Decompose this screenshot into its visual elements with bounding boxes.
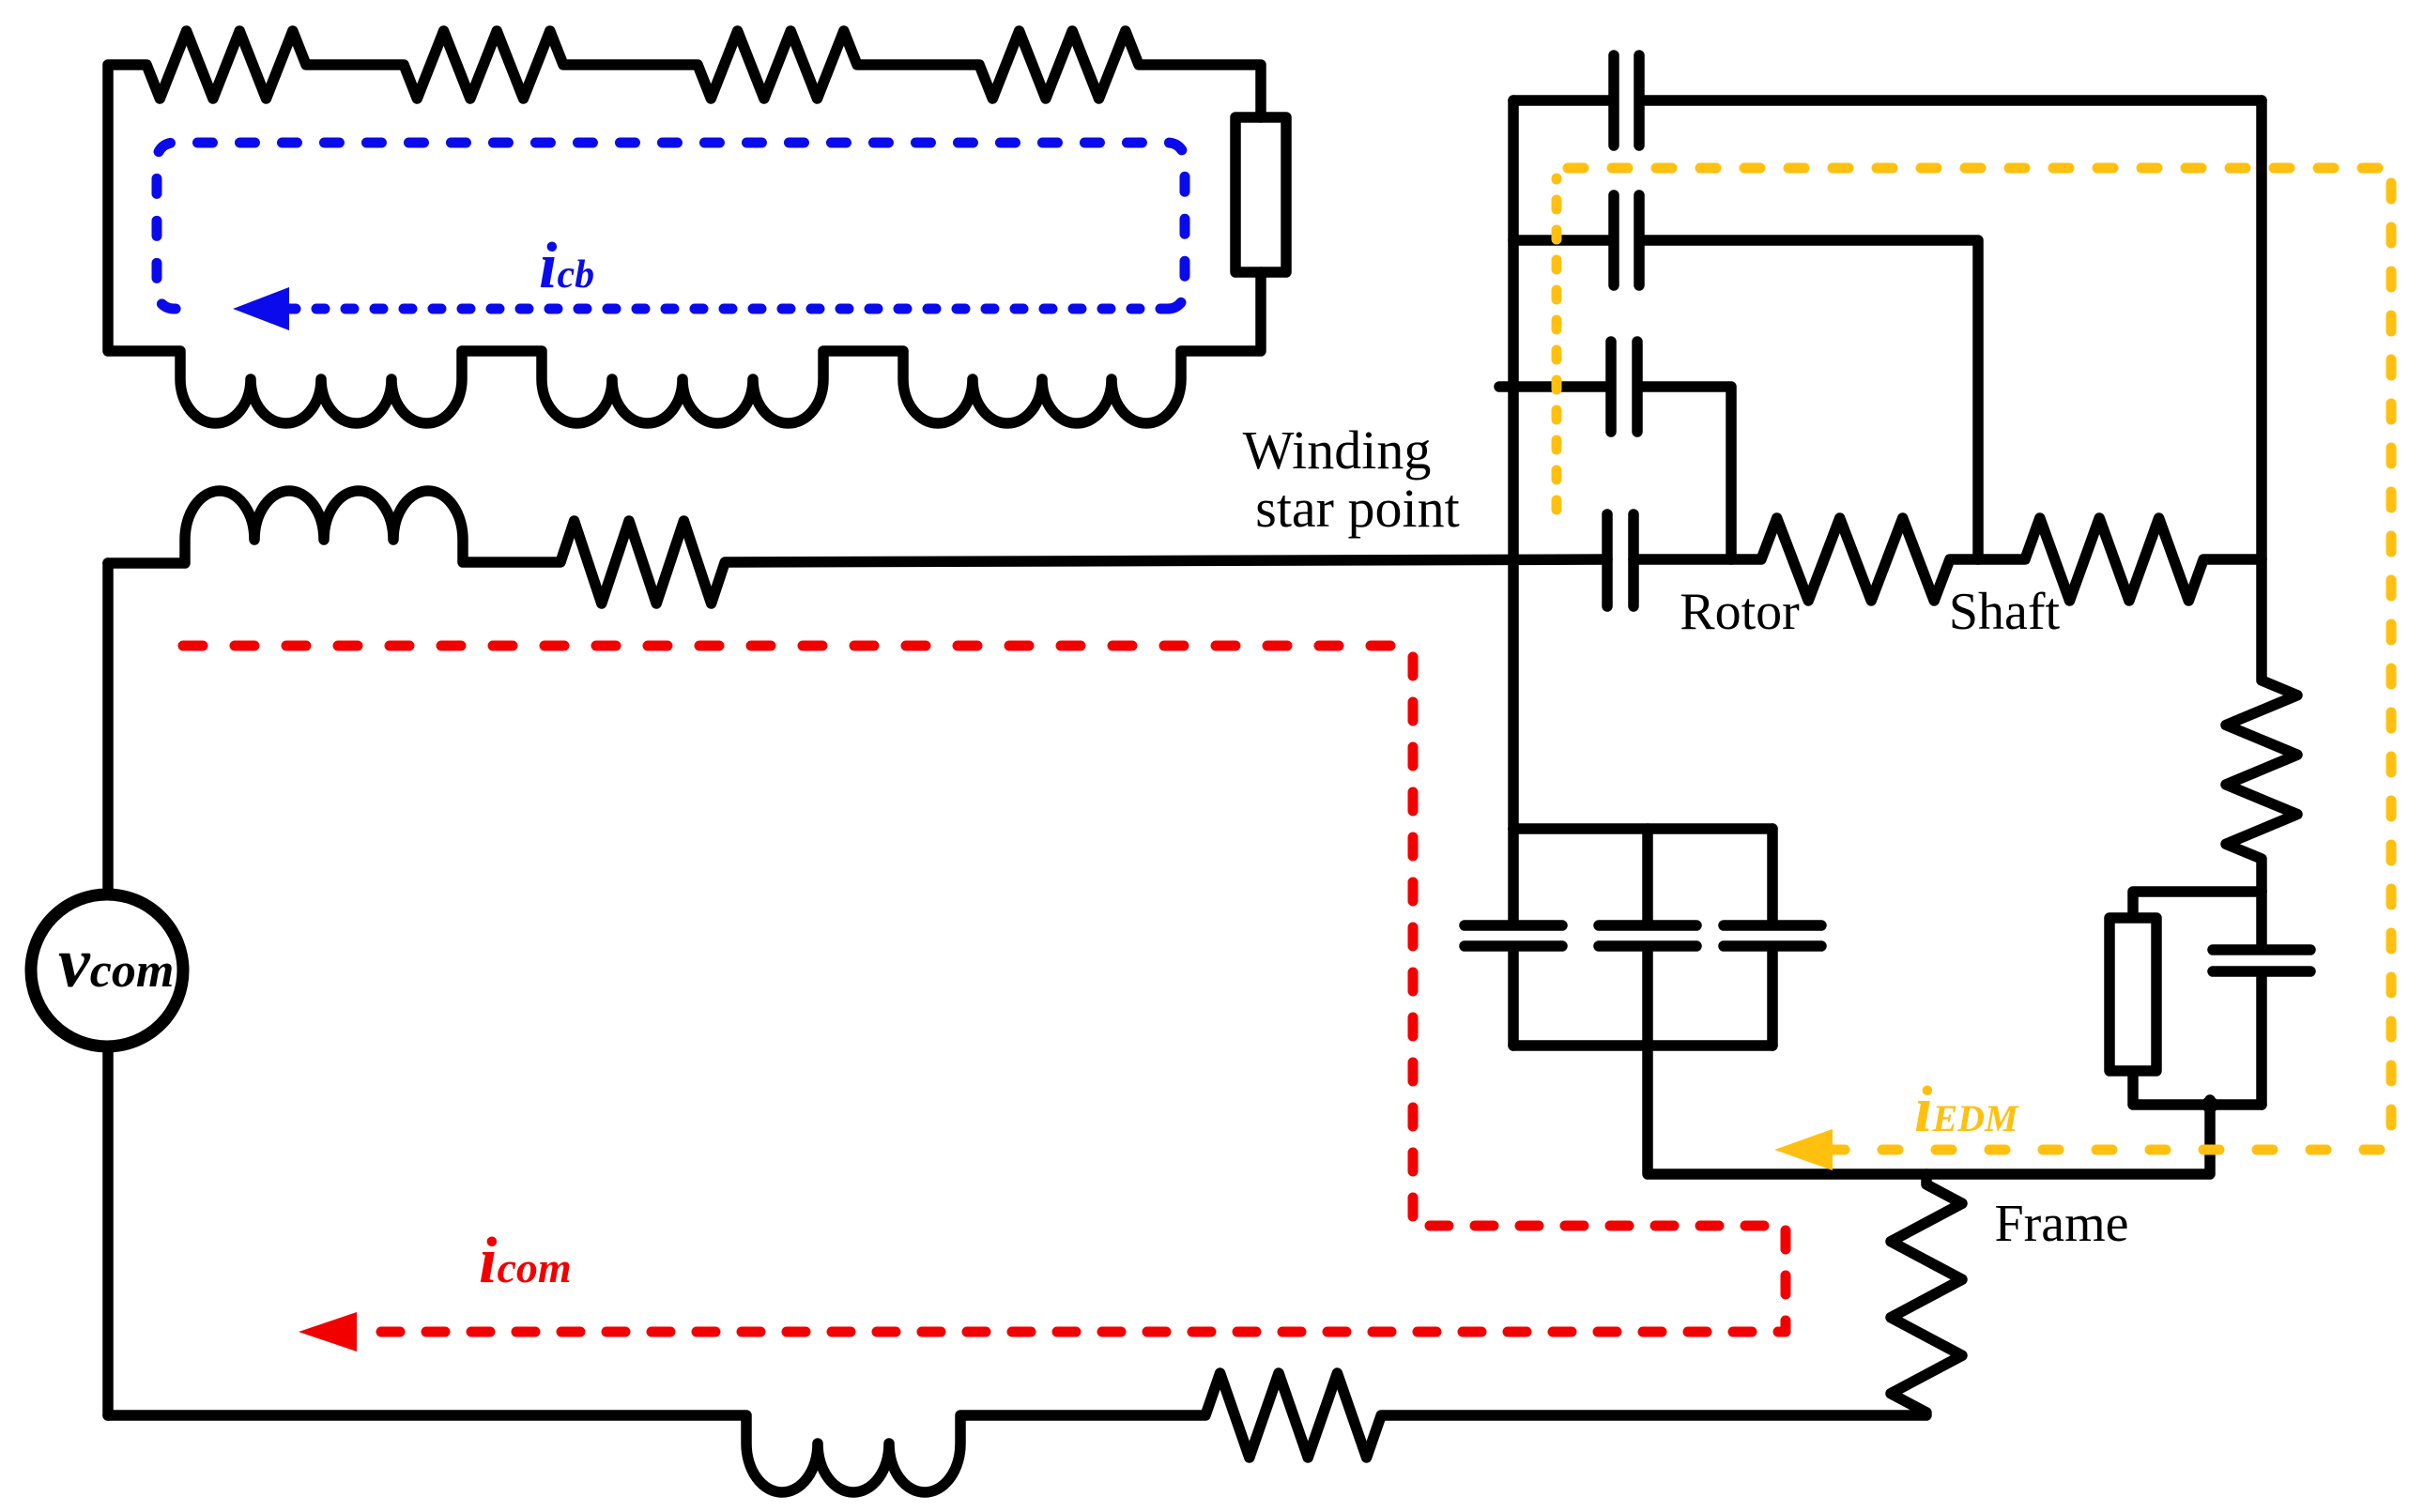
- svg-text:Shaft: Shaft: [1949, 583, 2061, 641]
- svg-text:Frame: Frame: [1994, 1195, 2128, 1253]
- svg-text:star point: star point: [1255, 478, 1459, 539]
- svg-text:Rotor: Rotor: [1680, 583, 1800, 641]
- svg-text:Winding: Winding: [1243, 420, 1432, 481]
